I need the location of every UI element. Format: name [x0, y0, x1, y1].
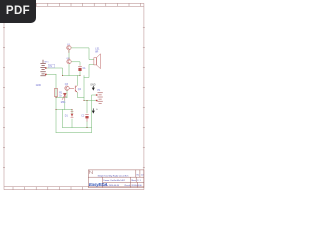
- wire vertical x84: [83, 76, 85, 101]
- junction at C2 top: [86, 100, 87, 101]
- transistor Q4: [75, 85, 77, 92]
- svg-text:MK1: MK1: [61, 102, 66, 104]
- wire inner top horizontal: [56, 109, 72, 111]
- svg-text:2014-04-30: 2014-04-30: [131, 185, 142, 187]
- wire left vertical: [55, 75, 57, 133]
- wire speaker return: [84, 65, 94, 78]
- junction at C1 / Q4 collector: [79, 75, 80, 76]
- diode D2 (mic): [62, 93, 67, 100]
- wire outer bottom: [56, 132, 92, 134]
- PDF badge: [0, 0, 36, 23]
- diode D1: [71, 111, 74, 117]
- svg-text:Drawn: YunFei.Ma 1402: Drawn: YunFei.Ma 1402: [103, 180, 125, 182]
- connector CN1: [98, 93, 103, 104]
- svg-text:GND: GND: [90, 83, 96, 86]
- wire C2 bottom: [86, 122, 88, 128]
- resistor R1: [54, 89, 63, 98]
- junction at D1 top: [71, 109, 72, 110]
- wire T2 down to supply rail: [68, 64, 70, 76]
- label 9V net flag: [48, 64, 54, 68]
- wire C1 bottom: [79, 71, 81, 76]
- wire T4 emitter: [77, 93, 84, 98]
- svg-text:9V: 9V: [49, 66, 52, 68]
- ground GND2: [92, 108, 98, 113]
- svg-text:1 / 1: 1 / 1: [137, 180, 142, 182]
- junction at C2 bottom: [86, 127, 87, 128]
- svg-text:G: G: [96, 109, 98, 111]
- junction at mid rail x84: [83, 100, 84, 101]
- wire mid horizontal: [84, 100, 97, 102]
- ground GND1 (speaker): [90, 83, 96, 90]
- svg-text:LS1: LS1: [95, 49, 100, 51]
- svg-text:P1: P1: [98, 90, 102, 92]
- svg-text:Q3: Q3: [65, 84, 69, 86]
- wire base row: [56, 97, 67, 99]
- title block corner mark: [89, 171, 92, 174]
- capacitor C2: [85, 114, 88, 121]
- wire supply rail: [63, 75, 81, 77]
- wire C2 top: [86, 101, 88, 114]
- junction at supply rail / battery branch: [62, 75, 63, 76]
- transistor Q2: [67, 58, 71, 64]
- svg-text:BT1: BT1: [45, 61, 50, 63]
- svg-text:R1: R1: [59, 93, 63, 95]
- wire battery plus: [47, 68, 63, 76]
- battery pin nubs: [45, 67, 47, 75]
- svg-text:C2: C2: [81, 115, 85, 117]
- capacitor C1: [78, 66, 82, 71]
- wire top horizontal T1 to speaker: [71, 48, 94, 60]
- svg-text:Re: Re: [137, 175, 139, 177]
- wire inner left vertical: [62, 110, 64, 128]
- wire inner bottom: [63, 127, 92, 129]
- wire T3 emitter: [66, 91, 68, 98]
- svg-text:GND: GND: [36, 85, 41, 87]
- svg-text:Check:: Check:: [124, 185, 131, 187]
- battery BT1: [40, 60, 45, 76]
- connector pin nubs: [96, 94, 98, 101]
- speaker LS1: [94, 54, 101, 69]
- wire T2 to C1: [72, 62, 80, 66]
- svg-text:D1: D1: [65, 116, 69, 118]
- title block: [88, 170, 144, 188]
- wire D2 column: [64, 100, 66, 109]
- wire D1 top: [71, 110, 73, 114]
- wire battery minus: [47, 74, 57, 76]
- svg-text:8R: 8R: [95, 51, 98, 53]
- svg-text:Q4: Q4: [78, 89, 82, 91]
- transistor Q1: [67, 46, 71, 53]
- transistor Q3: [65, 86, 74, 90]
- wire D1 bottom: [71, 119, 73, 128]
- svg-text:C1: C1: [83, 68, 87, 70]
- junction at R1 bottom: [55, 97, 56, 98]
- svg-text:Date: 2014-04-30: Date: 2014-04-30: [103, 184, 119, 187]
- wire T4 collector: [76, 76, 78, 86]
- svg-text:1.0: 1.0: [141, 175, 144, 177]
- svg-text:Simple Two Way Radio Circuit S: Simple Two Way Radio Circuit Sch: [98, 175, 129, 178]
- junction at left rail / inner loop: [55, 109, 56, 110]
- wire T1 to T2: [68, 50, 70, 59]
- wire connector pin1 stub: [92, 95, 98, 133]
